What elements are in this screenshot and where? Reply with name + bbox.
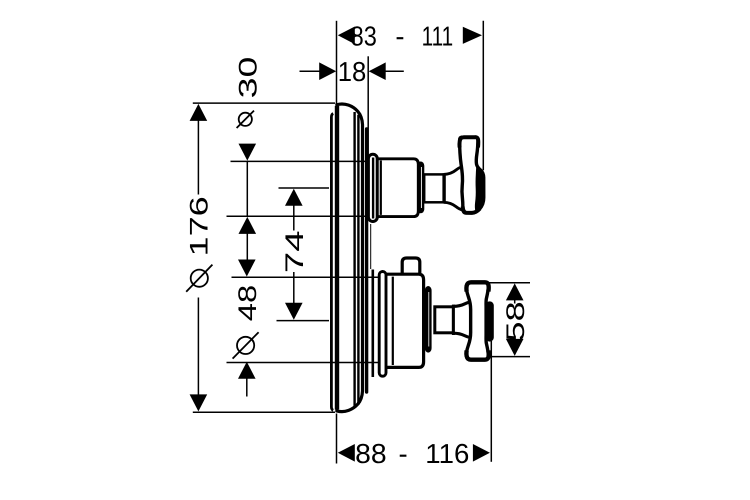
svg-text:58: 58 [502, 301, 530, 341]
svg-text:48: 48 [234, 285, 262, 322]
escutcheon plate (side view) [331, 104, 366, 412]
upper stem ring [442, 173, 445, 203]
dimension dia 30 (upper sleeve) [227, 57, 369, 261]
dimension line segment 3 [246, 378, 248, 397]
svg-text:18: 18 [338, 56, 367, 87]
carrier plate edge line [370, 224, 372, 269]
extension line right (thermostat handle front) [490, 341, 492, 462]
arrowhead 1 [190, 104, 208, 121]
svg-text:30: 30 [234, 57, 262, 99]
lower stem ring [452, 305, 455, 335]
arrowhead 2 [238, 362, 256, 379]
svg-text:-: - [399, 438, 408, 469]
arrowhead 1 [238, 260, 256, 277]
arrowhead right [473, 444, 490, 462]
arrowhead 2 [239, 217, 257, 234]
upper sleeve contour lines [372, 158, 374, 219]
lower cross handle (side view) [466, 283, 488, 360]
dimension line segment 4 [246, 233, 248, 261]
diameter symbol circle [237, 337, 254, 354]
dimension line segment 2 [193, 411, 335, 413]
dimension 83 - 111 (top) [337, 21, 484, 171]
svg-text:-: - [395, 21, 404, 52]
dimension line segment 3 [197, 119, 199, 195]
upper handle lobe emphasis top [459, 137, 478, 147]
diameter symbol slash [233, 332, 259, 358]
upper handle bottom edge emphasis [463, 207, 480, 213]
upper handle stem [424, 174, 444, 202]
dimension line segment 4 [514, 340, 516, 342]
extension line left (wall face) [336, 21, 338, 104]
dimension line segment 2 [227, 362, 379, 364]
extension line (sleeve base plane) [367, 56, 369, 160]
lower handle lobe emphasis top [466, 282, 488, 291]
dimension line segment 4 [197, 298, 199, 397]
upper handle far arm (dark bulge) [475, 163, 485, 212]
thermostat base ring [371, 270, 374, 378]
dimension line segment 1 [193, 102, 335, 104]
extension line left (wall face, bottom) [336, 414, 338, 464]
arrowhead pointing right [319, 62, 336, 80]
diameter symbol circle [191, 270, 208, 287]
dimension line segment 2 [227, 215, 369, 217]
lower handle lobe emphasis bottom [466, 351, 488, 360]
thermostat cylinder body [385, 274, 424, 367]
lower handle hub [454, 304, 470, 337]
dimension 74 (handle spacing) [277, 188, 330, 321]
upper cross handle (side view) [460, 137, 484, 213]
upper valve sleeve body [377, 159, 418, 217]
svg-text:176: 176 [186, 196, 214, 256]
lower handle stem [435, 307, 454, 333]
thermostat end cap [425, 286, 432, 353]
extension line right (handle front) [482, 21, 484, 170]
dimension 58 (lower handle) [487, 283, 531, 357]
arrowhead 1 [506, 283, 524, 300]
diameter symbol slash [237, 111, 254, 128]
dimension line segment 3 [514, 299, 516, 304]
dimension dia 176 (left) [186, 103, 335, 412]
arrowhead 1 [285, 189, 303, 206]
upper sleeve end cap [417, 162, 424, 214]
svg-text:83: 83 [351, 21, 377, 52]
arrowhead 2 [285, 303, 303, 320]
dimension line segment 1 [279, 187, 330, 189]
arrowhead 2 [190, 394, 208, 411]
dimension line segment 1 [487, 282, 531, 284]
arrowhead left [338, 444, 355, 462]
dimension line segment 4 [293, 272, 295, 305]
dimension 88 - 116 (bottom) [337, 341, 492, 469]
diameter symbol circle [239, 113, 252, 126]
upper handle hub [444, 168, 463, 209]
svg-text:74: 74 [281, 231, 309, 274]
dimension line segment 3 [293, 204, 295, 231]
thermostat body contour line [392, 277, 394, 365]
dimension line segment 2 [487, 356, 531, 358]
dimension line segment 2 [277, 320, 330, 322]
svg-text:116: 116 [425, 438, 469, 469]
dimension line segment 1 [231, 160, 369, 162]
dimension line segment 1 [232, 276, 379, 278]
dimension line segment 3 [246, 161, 248, 216]
arrowhead 1 [239, 144, 257, 161]
arrowhead 2 [506, 339, 524, 356]
dimension 18 (top) [300, 56, 404, 161]
svg-text:111: 111 [422, 21, 454, 52]
thermostat safety stop tab [402, 258, 420, 276]
arrowhead pointing left [369, 62, 386, 80]
lower handle far arm (dark bar) [486, 306, 494, 338]
arrowhead left [338, 27, 355, 45]
arrowhead right [463, 27, 482, 44]
dimension dia 48 (thermostat) [227, 260, 379, 397]
diameter symbol slash [186, 265, 212, 292]
svg-text:88: 88 [355, 438, 387, 469]
leader line left [300, 70, 322, 72]
thermostat flange [379, 272, 386, 377]
upper valve sleeve flange [368, 154, 377, 221]
leader line right [384, 70, 404, 72]
